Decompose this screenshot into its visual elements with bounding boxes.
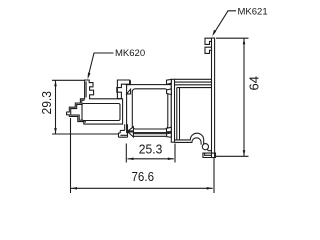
dimension 64 extension line top [216, 37, 249, 39]
profile MK620 tooth 2 hollow [88, 91, 93, 93]
profile MK620 arm cavity [82, 104, 120, 121]
profile MK620 outer outline [67, 80, 123, 124]
dimension 25.3 arrow left [128, 158, 134, 161]
sash bottom-right funnel upper [167, 127, 172, 132]
sash box outer [127, 85, 172, 133]
web second pair [175, 85, 212, 88]
right chamber left wall pair [177, 88, 180, 140]
dimension 76.6 arrow right [207, 187, 213, 190]
profile MK620 leg inner line [85, 82, 87, 98]
profile MK621 head hook 1 [205, 38, 212, 44]
svg-text:MK620: MK620 [115, 48, 145, 59]
dimension 64 extension line bottom [204, 155, 249, 157]
profile MK621 head hook 2 [205, 47, 212, 53]
dimension 29.3 line [55, 80, 57, 134]
dimension 76.6 extension line left [70, 118, 72, 193]
right chamber bottom shelf [207, 149, 211, 151]
boss bottom-left bowtie upper [128, 127, 133, 131]
profile MK620 tooth 1 hollow [88, 84, 92, 86]
profile MK621 bar lower segment [212, 153, 215, 157]
dimension 64 line [243, 38, 245, 156]
profile MK621 foot inner line [205, 153, 212, 155]
dimension 64 arrow down [243, 150, 246, 156]
dimension 25.3 line [128, 158, 174, 160]
profile MK620 hook inner line [71, 100, 86, 123]
svg-text:MK621: MK621 [238, 7, 268, 18]
sash bottom flange lines [134, 134, 167, 137]
boss bottom-left bowtie lower [128, 132, 133, 137]
sash right post [171, 79, 174, 142]
right chamber bottom outer with arch [175, 133, 204, 144]
profile MK621 bar [212, 38, 215, 158]
dimension 29.3 extension line top [52, 79, 85, 81]
dimension 29.3 arrow up [54, 81, 57, 87]
dimension 25.3 extension line right [174, 144, 176, 163]
svg-text:64: 64 [246, 76, 261, 91]
sash box chamber [132, 89, 168, 129]
dimension 76.6 line [71, 187, 213, 189]
boss top-left [117, 80, 130, 99]
label MK620 leader arrow [88, 73, 91, 80]
dimension 76.6 extension line right [213, 157, 215, 193]
right chamber bottom inner line [175, 138, 202, 145]
sash bottom-right funnel lower [167, 133, 172, 137]
profile MK621 foot [203, 153, 216, 157]
sash top-right funnel lower [167, 89, 172, 95]
dimension 76.6 arrow left [71, 187, 77, 190]
dimension 25.3 arrow right [168, 158, 174, 161]
svg-text:25.3: 25.3 [139, 142, 163, 157]
dimension 29.3 extension line bottom [52, 133, 118, 135]
svg-text:29.3: 29.3 [39, 91, 54, 115]
label MK621 leader [214, 11, 237, 34]
dimension 64 arrow up [243, 39, 246, 45]
sash top-left clip hat [126, 81, 130, 85]
dimension 29.3 arrow down [54, 128, 57, 134]
sash top-left clip flare [127, 89, 131, 94]
web top pair to MK621 [175, 79, 213, 82]
dimension 25.3 extension line left [125, 144, 127, 163]
sash top-right funnel upper [167, 79, 172, 84]
label MK620 leader [88, 53, 113, 77]
svg-text:76.6: 76.6 [132, 169, 155, 184]
right chamber knob [202, 144, 208, 150]
boss bottom-left steps [119, 124, 128, 137]
label MK621 leader arrow [212, 30, 216, 37]
